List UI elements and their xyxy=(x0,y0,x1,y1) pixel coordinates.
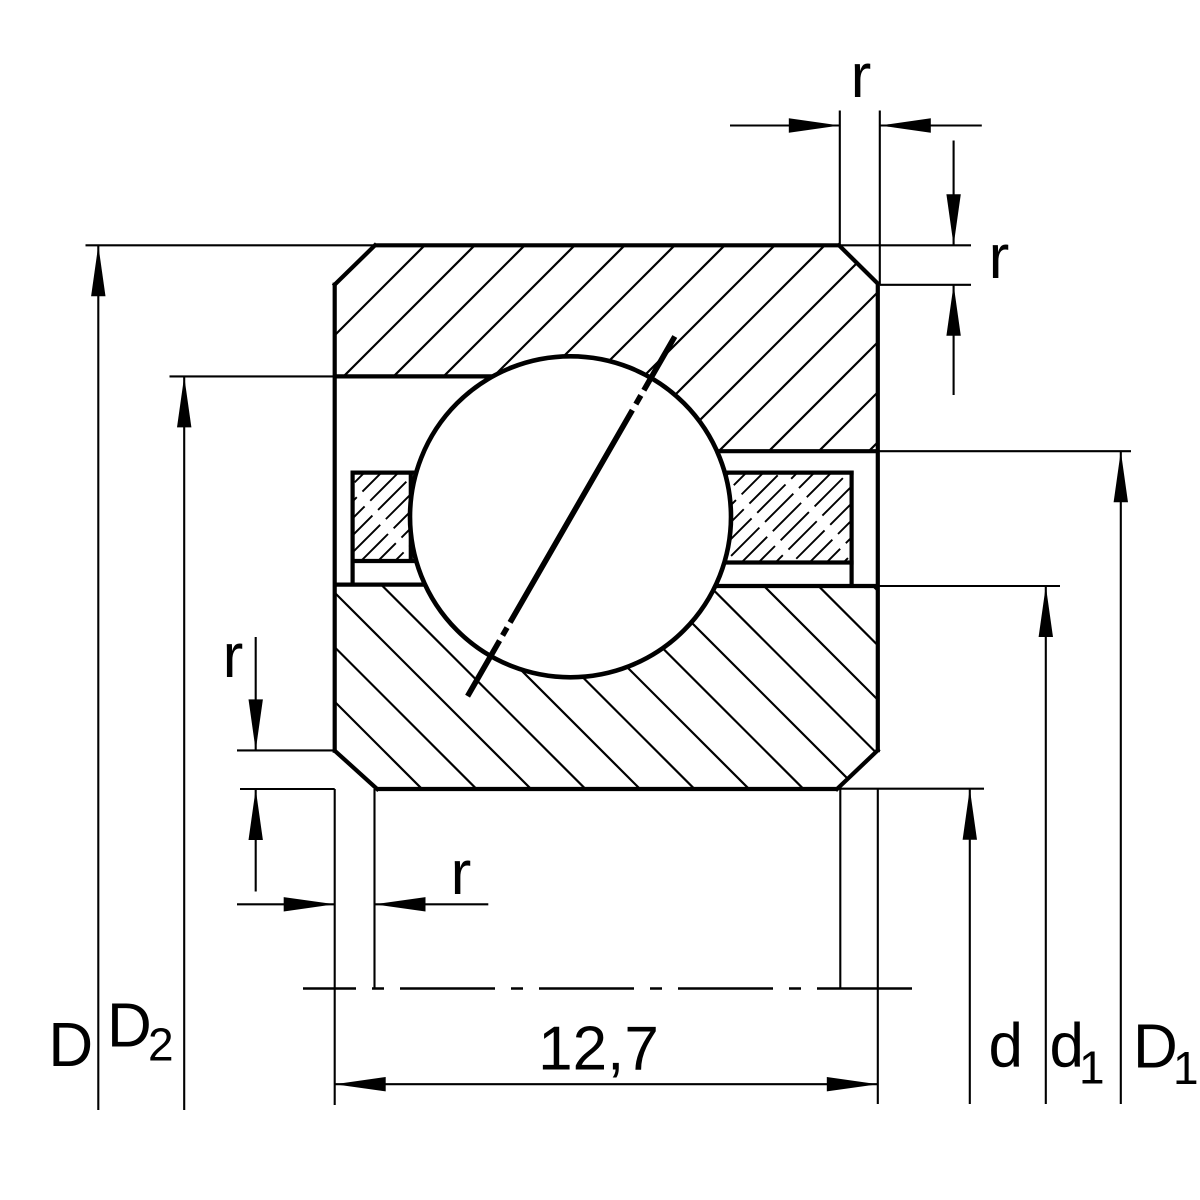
d1 dimension xyxy=(878,585,1060,587)
svg-text:d: d xyxy=(988,1012,1022,1081)
inner ring shoulder lines xyxy=(335,582,425,586)
svg-text:1: 1 xyxy=(1079,1042,1105,1094)
svg-text:D: D xyxy=(107,992,152,1061)
contact angle centerline through ball xyxy=(468,337,675,697)
bearing outline xyxy=(375,243,839,247)
inner ring cross-section hatching xyxy=(89,565,1092,805)
svg-text:r: r xyxy=(223,622,244,691)
cage left pocket border xyxy=(351,471,355,585)
cage left pocket hatching xyxy=(245,460,513,575)
cage right pocket border xyxy=(849,471,853,586)
outer ring bore lines xyxy=(335,374,493,378)
D1 dimension xyxy=(878,450,1131,452)
svg-text:r: r xyxy=(989,223,1010,292)
d dimension (bore) xyxy=(839,788,984,790)
outer ring cross-section hatching xyxy=(0,235,1085,470)
top r dimension (chamfer width) xyxy=(839,111,841,246)
svg-text:2: 2 xyxy=(148,1019,174,1071)
bottom-left r dimension (chamfer height) xyxy=(237,749,335,751)
cage right pocket hatching xyxy=(610,460,946,575)
bottom-left horizontal r dimension (chamfer width) xyxy=(373,789,375,989)
rolling element ball xyxy=(410,356,731,677)
svg-text:r: r xyxy=(451,839,472,908)
bore axis centerline xyxy=(303,987,919,990)
svg-text:r: r xyxy=(851,42,872,111)
12,7 width dimension xyxy=(334,789,336,1105)
svg-text:D: D xyxy=(48,1011,93,1080)
D dimension xyxy=(86,244,376,246)
svg-text:1: 1 xyxy=(1173,1042,1199,1094)
right r dimension (chamfer height) xyxy=(840,244,971,246)
svg-text:12,7: 12,7 xyxy=(538,1015,659,1084)
D2 dimension xyxy=(170,375,335,377)
svg-text:D: D xyxy=(1133,1013,1178,1082)
